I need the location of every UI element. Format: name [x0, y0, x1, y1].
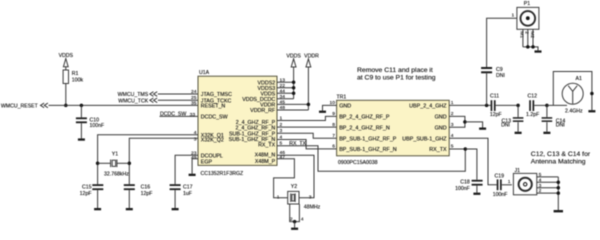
wire SUB-1_GHZ_RF_N	[277, 140, 337, 149]
note antenna matching	[531, 151, 591, 165]
connector J1	[508, 168, 537, 195]
wire RX_TX to C18	[465, 149, 477, 180]
capacitor C9	[481, 67, 505, 105]
svg-text:DNI: DNI	[496, 73, 505, 79]
wire P1 shield pins	[519, 29, 538, 50]
svg-text:at C9 to use P1 for testing: at C9 to use P1 for testing	[357, 75, 436, 82]
svg-text:0900PC15A0038: 0900PC15A0038	[338, 160, 378, 166]
power VDDR	[304, 54, 319, 68]
svg-text:9: 9	[332, 111, 335, 117]
svg-text:P1: P1	[524, 1, 530, 7]
svg-text:CC1352R1F3RGZ: CC1352R1F3RGZ	[201, 171, 244, 177]
svg-text:C19: C19	[495, 173, 505, 179]
svg-text:C17: C17	[183, 185, 193, 191]
svg-text:100nF: 100nF	[455, 186, 470, 192]
svg-text:GND: GND	[339, 104, 351, 110]
svg-text:A1: A1	[576, 76, 582, 82]
svg-text:C15: C15	[82, 185, 92, 191]
svg-text:X48M_N: X48M_N	[255, 153, 276, 159]
wire X32K_Q2	[129, 138, 198, 184]
svg-text:WMCU_RESET: WMCU_RESET	[1, 104, 39, 110]
node junction RX_TX TR1 pin5	[464, 147, 468, 151]
svg-text:1: 1	[277, 194, 280, 200]
svg-text:RX_TX: RX_TX	[429, 147, 447, 153]
svg-text:GND: GND	[435, 125, 447, 131]
svg-text:WMCU_TMS: WMCU_TMS	[118, 92, 149, 98]
wire X48M_P pin47	[274, 159, 295, 198]
node junction TR1 gnd tap	[463, 120, 467, 124]
svg-text:X32K_Q2: X32K_Q2	[201, 137, 224, 143]
svg-text:VDDR_RF: VDDR_RF	[250, 108, 276, 114]
ground under C14	[543, 132, 550, 134]
ground J1	[554, 210, 563, 212]
node junction Y1 left	[96, 162, 100, 166]
svg-text:M2: M2	[529, 31, 535, 38]
svg-text:100nF: 100nF	[493, 192, 508, 198]
ground A1	[588, 110, 595, 112]
capacitor C19	[493, 173, 512, 197]
svg-text:C12, C13 & C14 for: C12, C13 & C14 for	[531, 151, 591, 158]
capacitor C13	[501, 105, 523, 131]
wire TR1 pin10 to ground	[323, 105, 337, 110]
svg-text:WMCU_TCK: WMCU_TCK	[118, 98, 149, 104]
node junction VDDS pin22	[292, 86, 296, 90]
svg-text:BP_2_4_GHZ_RF_N: BP_2_4_GHZ_RF_N	[339, 125, 390, 131]
node junction VDDR pin45	[307, 103, 311, 107]
svg-text:U1A: U1A	[199, 70, 210, 76]
capacitor C10	[76, 105, 104, 138]
wire WMCU_RESET to U1A RESET_N	[49, 104, 199, 106]
svg-text:1uF: 1uF	[183, 191, 192, 197]
capacitor C18	[455, 179, 483, 192]
wire EGP to ground	[192, 159, 198, 174]
wire VDDS_DCDC pin34	[277, 98, 294, 100]
svg-text:BP_SUB-1_GHZ_RF_P: BP_SUB-1_GHZ_RF_P	[339, 136, 397, 142]
node junction VDDS pin13	[292, 81, 296, 85]
connector P1	[511, 1, 538, 29]
svg-text:3: 3	[194, 137, 197, 143]
svg-text:4: 4	[301, 217, 304, 223]
ground under C17	[172, 208, 179, 210]
capacitor C11	[490, 94, 518, 118]
svg-text:Y2: Y2	[291, 184, 297, 190]
svg-text:Remove C11 and place it: Remove C11 and place it	[357, 67, 433, 74]
wire X48M_N pin46	[277, 155, 314, 198]
ground under Y2	[291, 228, 298, 230]
svg-text:2: 2	[290, 217, 293, 223]
crystal Y1	[104, 152, 129, 178]
svg-text:DCDC_SW: DCDC_SW	[201, 115, 228, 121]
wire VDDS2 pin13	[277, 81, 294, 83]
svg-text:12pF: 12pF	[80, 191, 92, 197]
svg-text:C16: C16	[141, 185, 151, 191]
ground TR1 pin10	[319, 111, 326, 113]
svg-text:25: 25	[191, 95, 197, 101]
wire R1 to reset net	[65, 84, 67, 106]
wire VDDS3 pin22	[277, 87, 294, 89]
capacitor C14	[542, 105, 566, 131]
wire Y2 pads to ground	[290, 204, 300, 222]
ground P1	[535, 50, 542, 52]
wire VDDR_RF pin48	[277, 109, 308, 111]
node junction C13 tap	[516, 104, 520, 108]
capacitor C17	[170, 184, 193, 208]
node junction C10 tap	[80, 104, 84, 108]
wire SUB-1_GHZ_RF_P	[277, 133, 337, 138]
svg-text:TR1: TR1	[337, 94, 347, 100]
wire TR1 pins 2,3 gnd	[449, 116, 465, 127]
wire WMCU_TMS to JTAG_TMSC	[158, 93, 198, 95]
svg-text:GND: GND	[435, 115, 447, 121]
wire P1 pin1 to C9	[487, 18, 517, 67]
svg-text:12pF: 12pF	[141, 191, 153, 197]
wire VDDR rail vertical	[307, 67, 309, 110]
svg-text:1.2pF: 1.2pF	[526, 112, 539, 118]
wire UBP_SUB-1_GHZ pin4 to C19	[449, 138, 497, 185]
wire TR1 gnd tap	[465, 122, 483, 128]
svg-text:32.768kHz: 32.768kHz	[104, 171, 129, 177]
wire Y2 ground stem	[294, 222, 296, 228]
node junction Y2 ground	[293, 220, 297, 224]
svg-text:12pF: 12pF	[490, 112, 502, 118]
power VDDS (left)	[59, 53, 74, 70]
node junction R1/reset	[64, 104, 68, 108]
net label WMCU_RESET	[1, 103, 48, 109]
svg-text:X48M_P: X48M_P	[255, 159, 276, 165]
op-amp U1A CC1352R1F3RGZ	[198, 70, 277, 177]
svg-text:UBP_SUB-1_GHZ: UBP_SUB-1_GHZ	[402, 136, 447, 142]
svg-text:VDDR: VDDR	[304, 54, 319, 60]
svg-text:EGP: EGP	[201, 159, 213, 165]
ground under C10	[78, 138, 85, 140]
transformer TR1 balun	[337, 94, 450, 166]
capacitor C16	[124, 184, 153, 208]
svg-text:2.4GHz: 2.4GHz	[565, 109, 583, 115]
svg-text:C12: C12	[528, 94, 538, 100]
ground TR1 pins 2,3	[479, 128, 486, 130]
wire Y1 leads	[98, 162, 111, 164]
ground under C16	[126, 208, 133, 210]
svg-text:JTAG_TMSC: JTAG_TMSC	[201, 92, 232, 98]
wire 2_4_GHZ_RF_P	[277, 116, 337, 120]
power VDDS (U1A)	[286, 54, 301, 68]
svg-text:1: 1	[508, 179, 511, 185]
svg-text:5: 5	[451, 144, 454, 150]
svg-text:2: 2	[524, 31, 530, 34]
svg-text:BP_2_4_GHZ_RF_P: BP_2_4_GHZ_RF_P	[339, 115, 390, 121]
node junction C14 tap	[545, 104, 549, 108]
wire DCOUPL to C17	[175, 155, 198, 184]
svg-text:Y1: Y1	[112, 152, 118, 158]
wire antenna feed	[547, 104, 567, 106]
capacitor C12	[526, 94, 547, 118]
wire RX_TX U1A to TR1 pin5	[277, 146, 465, 172]
net label WMCU_TMS	[118, 92, 158, 98]
antenna A1	[553, 72, 593, 115]
wire DCDC_SW stub	[160, 115, 199, 117]
wire VDDR pin45	[277, 103, 308, 105]
svg-text:3: 3	[309, 194, 312, 200]
wire J1 shield pins	[537, 177, 561, 210]
svg-text:6: 6	[332, 144, 335, 150]
wire 2_4_GHZ_RF_N	[277, 126, 337, 128]
svg-text:100nF: 100nF	[90, 123, 105, 129]
wire VDDS rail vertical	[293, 67, 295, 99]
svg-text:UBP_2_4_GHZ: UBP_2_4_GHZ	[409, 104, 447, 110]
svg-text:R1: R1	[72, 71, 79, 77]
svg-text:7: 7	[332, 133, 335, 139]
wire X32K_Q1	[98, 135, 198, 185]
svg-text:C18: C18	[460, 179, 470, 185]
note remove C11	[357, 67, 436, 82]
svg-text:8: 8	[332, 122, 335, 128]
svg-text:BP_SUB-1_GHZ_RF_N: BP_SUB-1_GHZ_RF_N	[339, 147, 397, 153]
svg-text:C11: C11	[490, 94, 499, 100]
crystal Y2	[277, 184, 321, 211]
svg-text:100k: 100k	[72, 78, 84, 84]
ground under C15	[94, 208, 101, 210]
node junction VDDS pin44	[292, 92, 296, 96]
ground under EGP	[189, 174, 196, 176]
net label WMCU_TCK	[118, 98, 157, 104]
ground under C18	[473, 193, 480, 195]
svg-text:RX_TX: RX_TX	[258, 142, 276, 148]
node junction Y1 right	[128, 162, 132, 166]
wire UBP_2_4_GHZ pin1	[449, 104, 490, 106]
svg-text:DNI: DNI	[556, 122, 565, 128]
capacitor C15	[80, 184, 104, 208]
wire VDDS pin44	[277, 92, 294, 94]
wire WMCU_TCK to JTAG_TCKC	[158, 99, 198, 101]
resistor R1	[63, 70, 83, 84]
svg-text:48MHz: 48MHz	[304, 205, 321, 211]
svg-text:DNI: DNI	[501, 122, 510, 128]
svg-text:1: 1	[511, 12, 514, 18]
ground under C13	[515, 132, 522, 134]
svg-text:Antenna Matching: Antenna Matching	[531, 158, 586, 165]
svg-text:35: 35	[191, 100, 197, 106]
svg-text:DCOUPL: DCOUPL	[201, 153, 223, 159]
node junction C9/C11	[485, 104, 489, 108]
svg-text:RESET_N: RESET_N	[201, 104, 226, 110]
svg-text:24: 24	[191, 89, 197, 95]
